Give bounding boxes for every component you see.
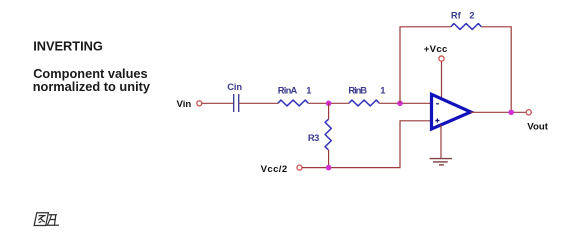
junction node C (R3 to Vcc/2 rail) bbox=[326, 165, 332, 171]
wire Vcc/2 rail to non-inverting input bbox=[302, 121, 431, 168]
pin minus bbox=[436, 103, 439, 105]
terminal Vout bbox=[526, 110, 531, 115]
svg-text:Vout: Vout bbox=[527, 121, 548, 132]
terminal +Vcc bbox=[439, 56, 444, 61]
svg-text:2: 2 bbox=[469, 9, 474, 20]
svg-text:normalized to unity: normalized to unity bbox=[33, 79, 151, 94]
svg-text:RinB: RinB bbox=[348, 85, 367, 96]
junction node A (RinA/RinB/R3) bbox=[326, 101, 332, 107]
svg-text:1: 1 bbox=[306, 85, 311, 96]
resistor R3 bbox=[325, 119, 331, 150]
wire Cin to RinA bbox=[239, 102, 278, 104]
terminal Vin bbox=[197, 101, 202, 106]
svg-text:Rf: Rf bbox=[451, 9, 462, 20]
svg-text:RinA: RinA bbox=[278, 85, 298, 96]
resistor RinA bbox=[278, 100, 308, 106]
svg-text:+Vcc: +Vcc bbox=[424, 44, 448, 55]
svg-text:Cin: Cin bbox=[227, 81, 242, 92]
figure caption 图五 (drawn strokes) bbox=[34, 213, 61, 226]
resistor RinB bbox=[349, 100, 379, 106]
wire output bbox=[471, 111, 526, 113]
svg-text:INVERTING: INVERTING bbox=[33, 39, 103, 54]
wire RinB to op-amp inverting input bbox=[379, 102, 431, 104]
terminal Vcc/2 bbox=[297, 165, 302, 170]
wire +Vcc to op-amp bbox=[441, 61, 443, 99]
wire Vin to Cin bbox=[202, 102, 233, 104]
wire Rf to output node bbox=[481, 27, 511, 113]
junction node Vout bbox=[508, 110, 514, 116]
wire R3 bottom bbox=[328, 150, 330, 168]
svg-text:R3: R3 bbox=[308, 132, 320, 143]
junction node B (feedback/inverting input) bbox=[397, 101, 403, 107]
ground bbox=[430, 159, 452, 165]
capacitor Cin bbox=[234, 94, 239, 112]
svg-text:Vin: Vin bbox=[177, 99, 192, 110]
pin plus bbox=[435, 118, 439, 122]
resistor Rf bbox=[451, 24, 481, 30]
svg-text:Vcc/2: Vcc/2 bbox=[261, 164, 288, 175]
wire feedback up and across bbox=[400, 27, 451, 104]
svg-text:1: 1 bbox=[380, 85, 385, 96]
op-amp U1 bbox=[432, 94, 471, 129]
wire RinA to RinB bbox=[308, 102, 349, 104]
wire op-amp to ground bbox=[440, 125, 442, 159]
wire R3 top bbox=[328, 103, 330, 119]
